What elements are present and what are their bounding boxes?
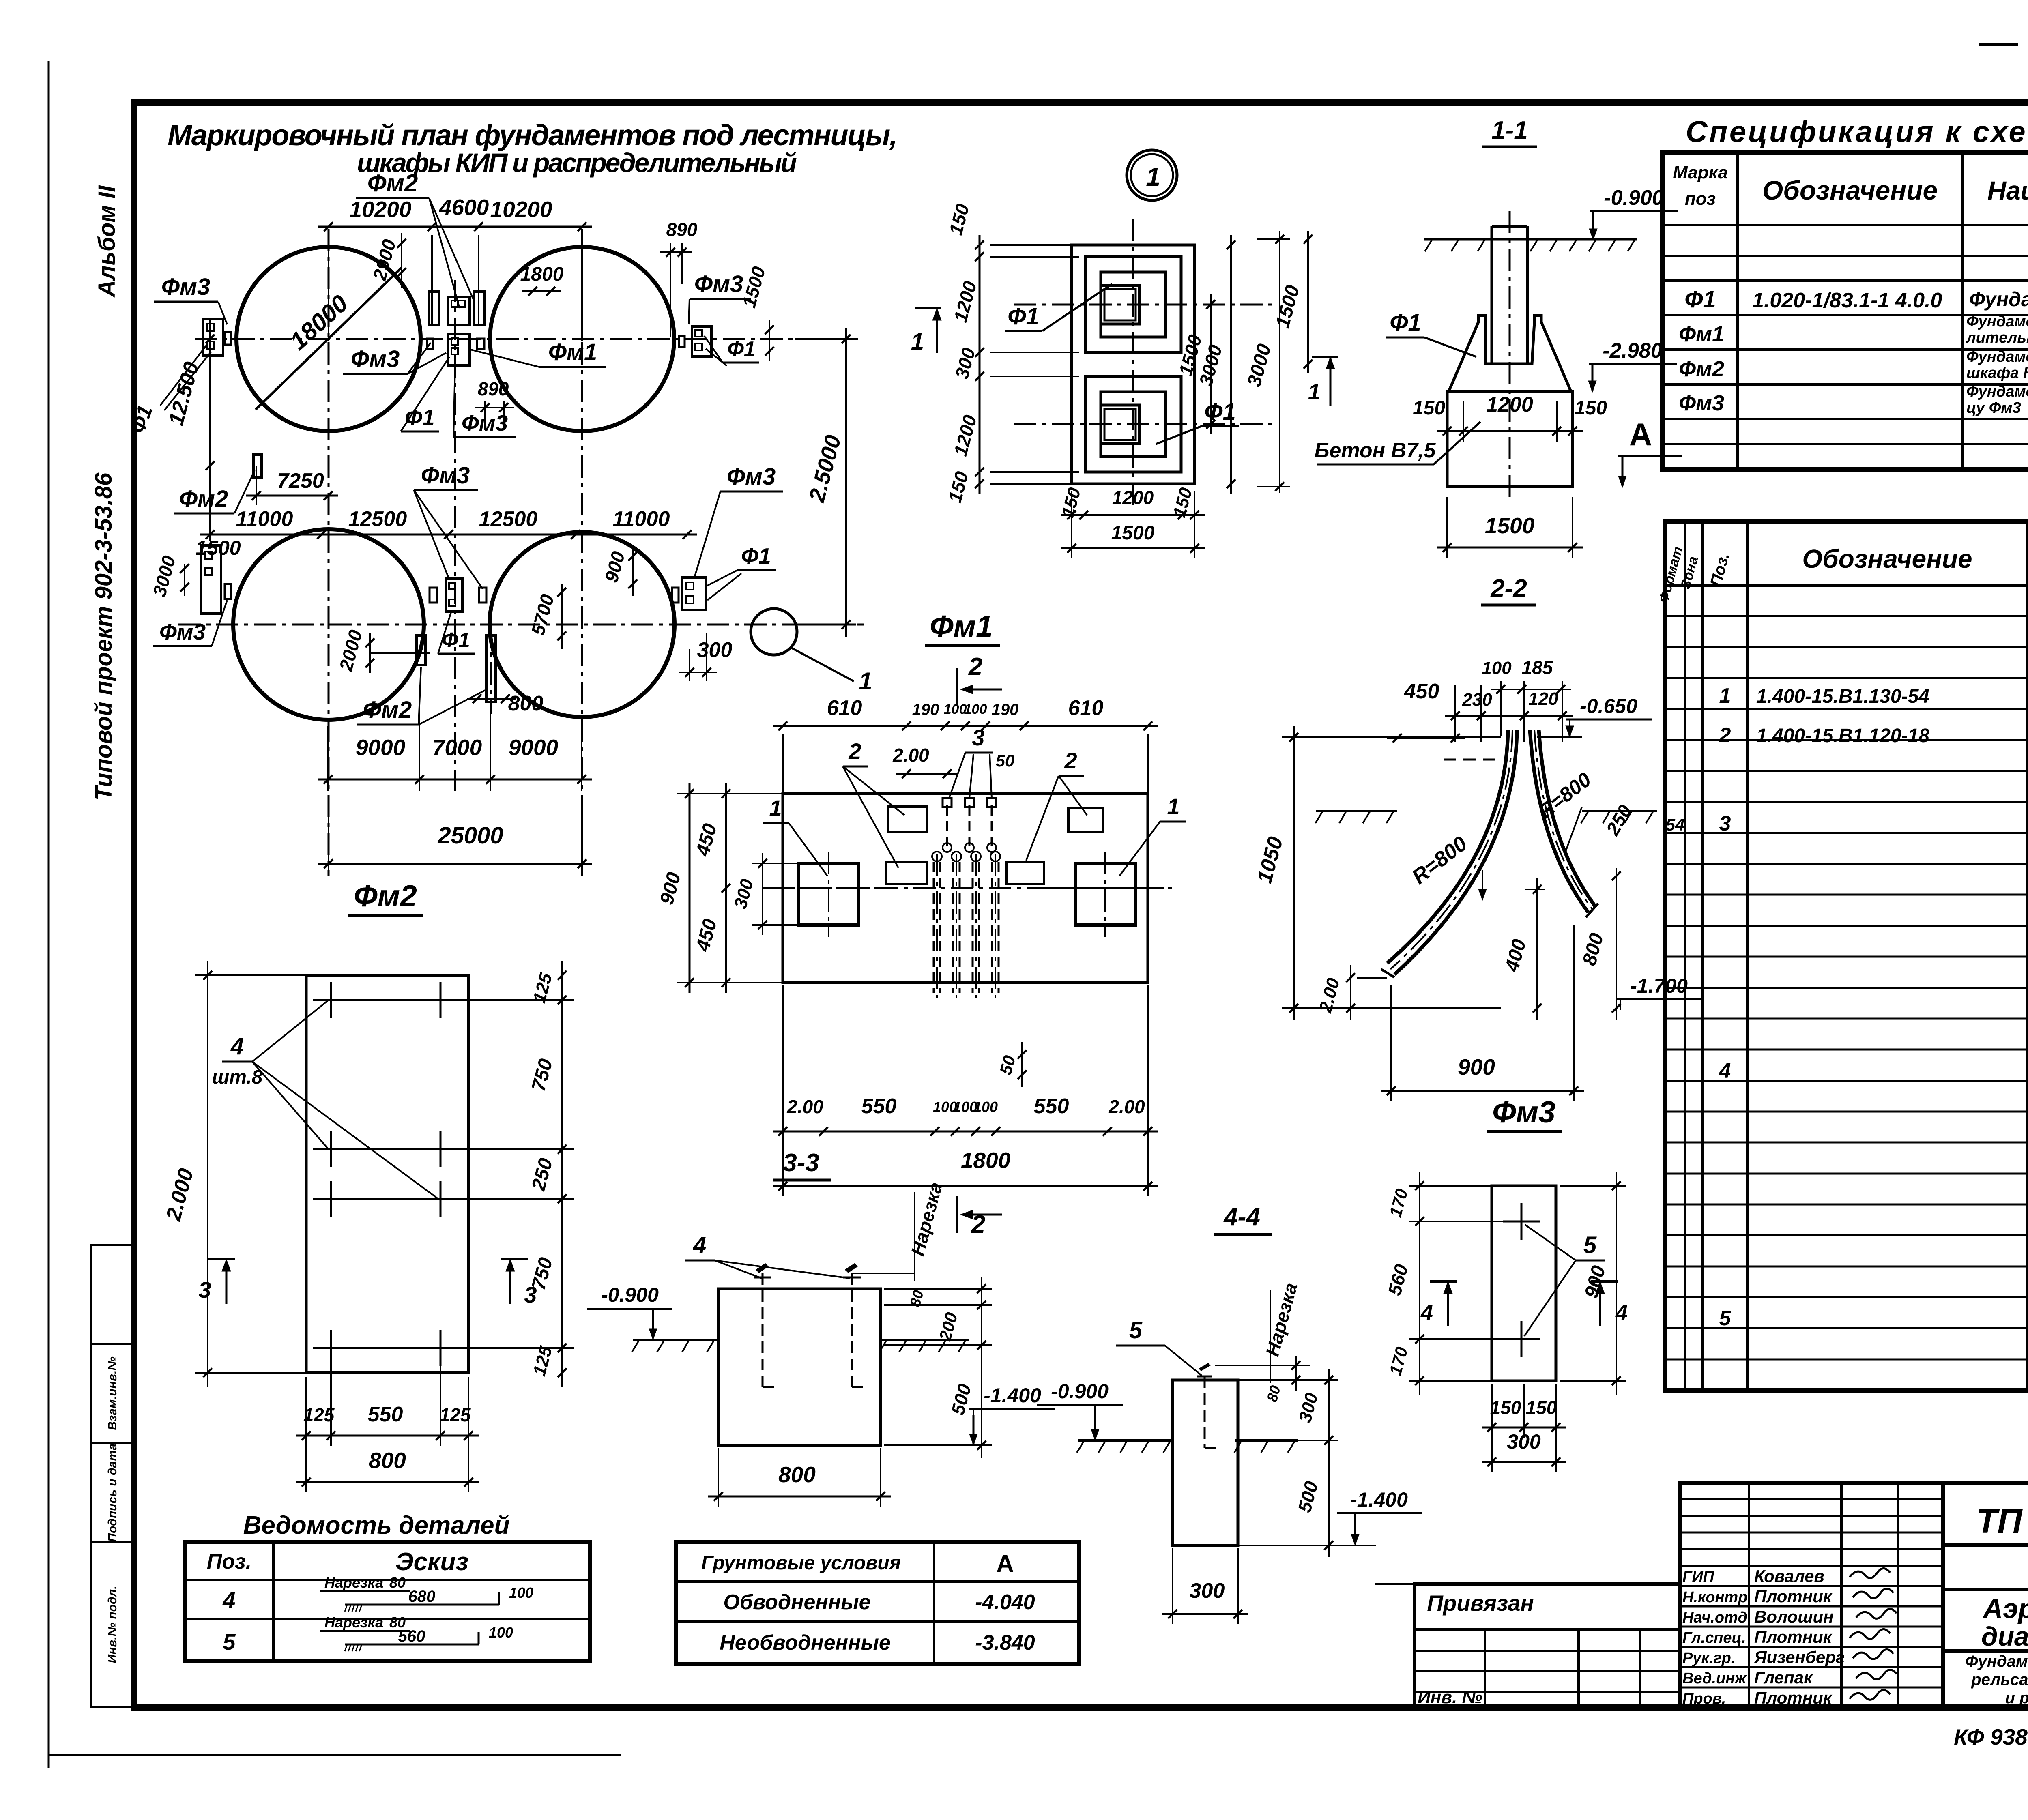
svg-text:1-1: 1-1 — [1491, 116, 1528, 144]
svg-text:190: 190 — [992, 701, 1019, 719]
svg-text:550: 550 — [368, 1403, 403, 1426]
svg-text:2-2: 2-2 — [1490, 575, 1527, 603]
svg-text:Обозначение: Обозначение — [1802, 544, 1972, 573]
svg-text:Ф1: Ф1 — [727, 337, 756, 361]
svg-text:7000: 7000 — [432, 735, 482, 760]
svg-text:1.020-1/83.1-1 4.0.0: 1.020-1/83.1-1 4.0.0 — [1752, 289, 1942, 312]
svg-text:150: 150 — [1575, 397, 1607, 419]
svg-text:Фм2: Фм2 — [363, 697, 412, 723]
svg-text:4: 4 — [1615, 1301, 1628, 1325]
svg-text:1: 1 — [1167, 794, 1179, 819]
svg-text:-1.400: -1.400 — [1350, 1488, 1408, 1511]
svg-text:3: 3 — [972, 725, 984, 750]
svg-text:Фм1: Фм1 — [930, 609, 993, 643]
svg-text:1: 1 — [769, 795, 782, 821]
svg-text:-0.900: -0.900 — [1051, 1380, 1109, 1403]
svg-text:800: 800 — [778, 1462, 816, 1487]
svg-text:450: 450 — [1404, 680, 1439, 703]
svg-text:Грунтовые условия: Грунтовые условия — [701, 1552, 901, 1574]
svg-text:Фм3: Фм3 — [161, 274, 210, 300]
svg-text:Плотник: Плотник — [1754, 1688, 1833, 1707]
svg-text:4: 4 — [1719, 1059, 1731, 1083]
svg-text:1200: 1200 — [1486, 393, 1533, 416]
svg-text:1: 1 — [1308, 379, 1321, 404]
svg-text:Фм3: Фм3 — [421, 462, 470, 489]
svg-text:ГИП: ГИП — [1682, 1569, 1714, 1586]
svg-text:Марка: Марка — [1673, 163, 1728, 182]
svg-text:1: 1 — [859, 667, 872, 695]
svg-text:Ф1: Ф1 — [442, 629, 470, 652]
svg-text:-1.700: -1.700 — [1630, 974, 1688, 997]
svg-text:Вед.инж: Вед.инж — [1682, 1670, 1747, 1687]
svg-text:3-3: 3-3 — [783, 1149, 819, 1177]
svg-text:Взам.инв.№: Взам.инв.№ — [106, 1356, 119, 1430]
svg-text:100: 100 — [489, 1624, 513, 1641]
svg-text:Подпись и дата: Подпись и дата — [106, 1443, 119, 1542]
svg-text:Альбом II: Альбом II — [94, 185, 120, 298]
svg-text:1.400-15.В1.120-18: 1.400-15.В1.120-18 — [1756, 725, 1929, 747]
svg-text:5: 5 — [1583, 1232, 1597, 1258]
svg-text:4: 4 — [693, 1232, 706, 1258]
svg-text:шкафы КИП и распределительный: шкафы КИП и распределительный — [357, 148, 797, 178]
svg-text:2: 2 — [1064, 748, 1077, 773]
svg-text:1: 1 — [911, 328, 924, 355]
svg-text:100: 100 — [944, 702, 967, 717]
svg-text:5: 5 — [1719, 1307, 1732, 1330]
svg-text:Поз.: Поз. — [207, 1550, 251, 1573]
svg-text:Фм2: Фм2 — [1679, 357, 1724, 381]
svg-text:230: 230 — [1462, 690, 1492, 710]
svg-text:Фм3: Фм3 — [1679, 391, 1724, 415]
svg-text:Нач.отд: Нач.отд — [1682, 1609, 1747, 1626]
svg-text:550: 550 — [1034, 1095, 1069, 1118]
svg-text:190: 190 — [912, 701, 939, 719]
svg-text:Фундаменты под колонны моно-: Фундаменты под колонны моно- — [1965, 1653, 2028, 1670]
svg-text:Маркировочный план фундаментов: Маркировочный план фундаментов под лестн… — [168, 119, 898, 152]
svg-text:300: 300 — [1190, 1579, 1225, 1603]
svg-text:Гл.спец.: Гл.спец. — [1682, 1629, 1746, 1646]
svg-text:680: 680 — [408, 1588, 436, 1605]
svg-text:12500: 12500 — [479, 507, 538, 531]
svg-text:100: 100 — [964, 702, 987, 717]
svg-text:Волошин: Волошин — [1754, 1607, 1834, 1626]
svg-text:Типовой проект 902-3-53.86: Типовой проект 902-3-53.86 — [90, 472, 117, 801]
svg-text:890: 890 — [666, 219, 698, 240]
svg-text:Ф1: Ф1 — [1008, 303, 1039, 330]
svg-text:-2.980: -2.980 — [1603, 339, 1663, 363]
svg-text:Фм3: Фм3 — [1492, 1095, 1555, 1129]
svg-text:2: 2 — [968, 653, 982, 681]
svg-text:Обводненные: Обводненные — [723, 1590, 870, 1614]
svg-text:шкафа КИП Фм2: шкафа КИП Фм2 — [1966, 365, 2028, 382]
svg-text:Рук.гр.: Рук.гр. — [1682, 1650, 1735, 1667]
svg-text:Спецификация к схеме расположе: Спецификация к схеме расположения — [1686, 115, 2028, 148]
svg-text:А: А — [1629, 416, 1652, 452]
svg-text:610: 610 — [1068, 696, 1104, 720]
svg-text:Нарезка: Нарезка — [324, 1574, 383, 1591]
svg-text:100: 100 — [509, 1584, 533, 1601]
svg-text:-1.400: -1.400 — [984, 1384, 1041, 1407]
svg-text:А: А — [996, 1550, 1014, 1577]
svg-text:Ф1: Ф1 — [741, 543, 771, 569]
svg-text:1: 1 — [1146, 162, 1160, 191]
svg-text:150: 150 — [1526, 1397, 1557, 1418]
svg-text:3: 3 — [1719, 812, 1731, 835]
svg-text:1500: 1500 — [1111, 522, 1155, 544]
svg-text:Обозначение: Обозначение — [1762, 175, 1938, 205]
svg-text:Инв.№ подл.: Инв.№ подл. — [106, 1586, 119, 1663]
svg-text:Ковалев: Ковалев — [1754, 1567, 1824, 1586]
svg-text:610: 610 — [827, 696, 862, 720]
svg-text:1200: 1200 — [1112, 487, 1154, 508]
svg-text:10200: 10200 — [490, 197, 552, 222]
svg-text:4: 4 — [230, 1033, 244, 1060]
svg-text:890: 890 — [478, 378, 509, 399]
svg-text:Фм3: Фм3 — [159, 619, 206, 644]
svg-text:1.400-15.В1.130-54: 1.400-15.В1.130-54 — [1756, 686, 1929, 707]
svg-text:900: 900 — [1458, 1054, 1495, 1080]
svg-text:Наименование: Наименование — [1987, 176, 2028, 205]
svg-text:800: 800 — [508, 692, 544, 715]
svg-text:5: 5 — [1129, 1317, 1143, 1344]
svg-text:7250: 7250 — [277, 469, 324, 493]
svg-text:80: 80 — [389, 1574, 406, 1591]
svg-text:185: 185 — [1522, 657, 1553, 678]
svg-text:цу Фм3: цу Фм3 — [1966, 399, 2021, 416]
svg-text:Фм2: Фм2 — [367, 170, 418, 197]
svg-text:800: 800 — [369, 1448, 406, 1473]
svg-text:4-4: 4-4 — [1223, 1203, 1260, 1231]
svg-text:120: 120 — [1528, 689, 1558, 709]
svg-text:-0.650: -0.650 — [1580, 695, 1637, 717]
svg-text:Фундамент для установки: Фундамент для установки — [1966, 348, 2028, 365]
svg-text:Н.контр: Н.контр — [1682, 1589, 1747, 1606]
svg-text:Фм3: Фм3 — [727, 464, 776, 490]
svg-text:300: 300 — [697, 638, 733, 662]
svg-text:1: 1 — [1719, 684, 1731, 708]
svg-text:Фм2: Фм2 — [354, 879, 417, 913]
svg-text:Фм2: Фм2 — [179, 486, 228, 512]
svg-text:рельса, лестницы, шкафы КИП: рельса, лестницы, шкафы КИП — [1971, 1671, 2028, 1689]
svg-text:Эскиз: Эскиз — [395, 1548, 468, 1576]
svg-text:3: 3 — [198, 1277, 211, 1303]
svg-text:5: 5 — [223, 1629, 236, 1655]
svg-text:диаметром 18м.: диаметром 18м. — [1981, 1621, 2028, 1651]
svg-text:Фм1: Фм1 — [548, 339, 597, 365]
svg-text:100: 100 — [973, 1099, 998, 1115]
svg-text:Аэроакселатор: Аэроакселатор — [1982, 1593, 2028, 1624]
svg-text:-3.840: -3.840 — [975, 1631, 1035, 1655]
svg-text:Фундамент 2ф 12.9-1: Фундамент 2ф 12.9-1 — [1969, 288, 2028, 311]
svg-text:9000: 9000 — [356, 735, 406, 760]
svg-text:2: 2 — [848, 738, 861, 764]
svg-text:4600: 4600 — [439, 195, 489, 220]
svg-text:Фундамент под распреде-: Фундамент под распреде- — [1966, 313, 2028, 330]
svg-text:лительный шкаф Фм1: лительный шкаф Фм1 — [1966, 329, 2028, 346]
svg-text:Плотник: Плотник — [1754, 1627, 1833, 1646]
svg-text:Ведомость деталей: Ведомость деталей — [243, 1511, 510, 1539]
svg-text:4: 4 — [222, 1587, 235, 1613]
svg-text:150: 150 — [1413, 397, 1445, 419]
svg-text:Инв. №: Инв. № — [1418, 1687, 1482, 1707]
svg-text:Пров.: Пров. — [1682, 1690, 1726, 1707]
svg-text:Глепак: Глепак — [1754, 1668, 1813, 1687]
svg-text:Плотник: Плотник — [1754, 1587, 1833, 1606]
svg-text:шт.8: шт.8 — [212, 1067, 263, 1088]
svg-text:-0.900: -0.900 — [1604, 186, 1664, 210]
svg-text:Фм3: Фм3 — [351, 346, 400, 372]
svg-text:11000: 11000 — [236, 507, 293, 531]
svg-text:3: 3 — [524, 1282, 537, 1307]
svg-text:и распределительный.: и распределительный. — [2005, 1689, 2028, 1707]
svg-text:25000: 25000 — [437, 822, 503, 849]
svg-text:50: 50 — [996, 751, 1015, 770]
svg-text:560: 560 — [398, 1627, 425, 1645]
svg-text:125: 125 — [440, 1404, 471, 1425]
svg-text:Ф1: Ф1 — [1390, 309, 1421, 336]
svg-text:Фм1: Фм1 — [1679, 322, 1724, 346]
svg-text:100: 100 — [1482, 658, 1512, 678]
svg-text:2.00: 2.00 — [892, 745, 929, 766]
svg-text:ТП 902-3-53.86: ТП 902-3-53.86 — [1976, 1502, 2028, 1541]
svg-text:-0.900: -0.900 — [601, 1283, 659, 1306]
svg-text:-4.040: -4.040 — [975, 1590, 1035, 1614]
svg-text:1500: 1500 — [1485, 513, 1535, 538]
svg-text:9000: 9000 — [509, 735, 559, 760]
svg-text:Ф1: Ф1 — [1684, 286, 1716, 313]
svg-text:Фм3: Фм3 — [694, 271, 743, 297]
svg-text:Бетон В7,5: Бетон В7,5 — [1315, 439, 1436, 462]
svg-text:2.00: 2.00 — [786, 1096, 823, 1117]
svg-text:4: 4 — [1420, 1301, 1433, 1325]
svg-text:11000: 11000 — [613, 507, 670, 531]
svg-text:54: 54 — [1666, 815, 1685, 834]
svg-text:Привязан: Привязан — [1427, 1590, 1534, 1616]
svg-text:150: 150 — [1490, 1397, 1521, 1418]
svg-text:1800: 1800 — [520, 264, 564, 285]
svg-text:КФ 9387-02: КФ 9387-02 — [1954, 1724, 2028, 1749]
svg-text:2.00: 2.00 — [1108, 1096, 1145, 1117]
svg-text:Яизенберг: Яизенберг — [1754, 1648, 1845, 1667]
svg-text:поз: поз — [1685, 189, 1716, 209]
svg-text:Необводненные: Необводненные — [720, 1631, 891, 1655]
svg-text:Фундамент под лестни-: Фундамент под лестни- — [1966, 383, 2028, 400]
svg-text:550: 550 — [861, 1095, 897, 1118]
svg-text:10200: 10200 — [350, 197, 412, 222]
svg-text:2: 2 — [1719, 723, 1731, 747]
svg-text:1800: 1800 — [961, 1148, 1011, 1173]
svg-text:12500: 12500 — [348, 507, 407, 531]
svg-text:1500: 1500 — [195, 537, 241, 559]
svg-text:Нарезка: Нарезка — [324, 1614, 383, 1631]
